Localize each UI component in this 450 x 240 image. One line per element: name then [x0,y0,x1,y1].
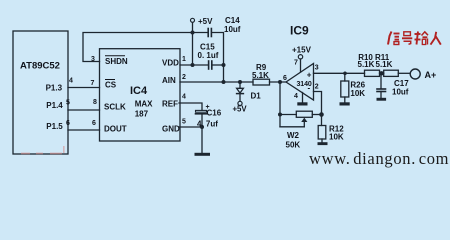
svg-text:10uf: 10uf [392,87,409,96]
svg-text:10K: 10K [329,133,344,142]
node at opamp input [279,82,281,127]
wire C17 stem [380,73,382,88]
watermark remnant marks (faint red) [21,146,65,154]
svg-text:2: 2 [182,74,186,81]
svg-text:8: 8 [93,99,97,106]
capacitor C14 plates [207,29,209,37]
wire C16 to GND wire [201,115,203,128]
ground bar R26 [340,102,350,105]
svg-text:AT89C52: AT89C52 [20,61,60,72]
junction D1 [238,80,242,84]
junction W2 left [278,113,282,117]
wire C14 to vertical [212,33,224,83]
svg-text:DOUT: DOUT [104,125,127,134]
svg-text:3: 3 [91,56,95,63]
terminal A+ circle [410,69,420,79]
junction C16 gnd [200,125,204,129]
capacitor C17 top plate [377,88,386,90]
glyph 入 [431,32,441,45]
svg-text:MAX: MAX [135,100,153,109]
glyph 信 [388,32,400,45]
wire P1.4 to SCLK [68,109,100,111]
svg-text:4: 4 [69,78,73,85]
svg-text:www.diangon.com: www.diangon.com [309,149,449,168]
wire R11 to A+ [398,72,410,74]
wire W2 right [312,114,321,116]
wire GND down [201,127,203,153]
diode D1 stem bottom [239,94,241,102]
svg-text:2: 2 [315,84,319,91]
diode D1 triangle [237,88,244,93]
resistor R26 box [341,81,349,97]
svg-text:5.1K: 5.1K [376,60,393,69]
wire +15V to pin7 [300,59,302,72]
wire SHDN to +5V rail [83,33,193,62]
red caption 信号输入 (signal input) drawn as strokes [388,32,441,45]
wire +5V rail to C14 [193,32,208,34]
wire R12 to ground [321,139,323,142]
wire R26 stem [344,73,346,81]
op-amp U IC9 triangle [286,64,314,101]
svg-text:C14: C14 [225,16,240,25]
svg-text:50K: 50K [286,141,301,150]
junction C15 right [222,63,226,67]
potentiometer W2 box [296,111,312,117]
svg-text:1: 1 [182,56,186,63]
svg-text:-: - [308,84,311,93]
svg-text:P1.4: P1.4 [46,101,63,110]
terminal +5V top stem [192,23,194,33]
wire AIN pin 2 [180,81,253,83]
wire pin2 to feedback [314,92,322,126]
junction R26 [343,72,347,76]
junction +5V rail [191,31,195,35]
svg-text:6: 6 [66,120,70,127]
wiper W2 arrow head [301,118,307,122]
svg-text:5: 5 [66,100,70,107]
MCU U? AT89C52 box [13,31,68,154]
svg-text:C16: C16 [207,109,222,118]
junction R10 R11 C17 [379,71,383,75]
svg-text:5.1K: 5.1K [358,60,375,69]
svg-text:3: 3 [315,64,319,71]
svg-text:SHDN: SHDN [105,57,128,66]
wire +5V down to VDD [192,33,194,66]
svg-text:4: 4 [182,94,186,101]
svg-text:+: + [307,71,312,80]
wire node to W2 left [280,114,296,116]
svg-text:4: 4 [294,93,298,100]
junction opamp input node [278,80,282,84]
capacitor C16 bottom plate [196,113,207,115]
capacitor C16 top plate [196,110,207,112]
ground bar C16 [195,153,211,156]
glyph 号 [402,32,412,45]
svg-text:10uf: 10uf [224,25,241,34]
resistor R10 box [365,70,380,76]
wire pin3 output to R10 [314,72,365,74]
svg-text:W2: W2 [287,131,300,140]
svg-text:+5V: +5V [233,105,248,114]
wire GND pin 5 [179,126,202,128]
terminal +15V circle [298,55,302,59]
svg-text:10K: 10K [350,89,365,98]
wire C17 to ground [380,92,382,98]
ground bar opamp pin4 [297,102,307,105]
svg-text:P1.3: P1.3 [46,84,63,93]
ground bar C17 [377,98,387,101]
wire C15 right [212,64,223,66]
junction W2 right [319,112,324,117]
wire wiper to node [280,126,304,128]
wire R10-R11 [380,72,384,74]
wire R9 to opamp [270,81,287,83]
svg-text:VDD: VDD [162,59,179,68]
svg-text:5: 5 [182,118,186,125]
resistor R9 box [253,79,270,85]
diode D1 cathode bar [237,93,244,95]
diode D1 stem top [239,82,241,88]
svg-text:7: 7 [91,80,95,87]
junction VDD [191,63,195,67]
svg-text:6: 6 [283,75,287,82]
svg-text:IC4: IC4 [130,85,148,97]
IC4 MAX187 box [100,49,181,141]
svg-text:REF: REF [162,100,178,109]
wire REF pin 4 to C16 [179,103,202,110]
svg-text:IC9: IC9 [290,24,309,38]
svg-text:6: 6 [92,120,96,127]
terminal +5V top circle [191,18,195,22]
svg-text:D1: D1 [251,92,262,101]
svg-text:4. 7uf: 4. 7uf [197,120,218,129]
svg-text:0. 1uf: 0. 1uf [198,51,219,60]
svg-text:AIN: AIN [162,76,176,85]
junction AIN vertical [222,80,226,84]
svg-text:GND: GND [162,125,180,134]
wiper W2 stem [303,122,305,127]
ground bar R12 [318,142,328,145]
svg-text:P1.5: P1.5 [46,122,63,131]
capacitor C15 plates [208,61,210,69]
svg-text:7: 7 [294,60,298,67]
resistor R12 box [318,126,326,140]
resistor R11 box [384,70,399,76]
wire P1.5 to DOUT [68,129,100,131]
wire P1.3 to CS [68,87,100,89]
svg-text:187: 187 [135,110,149,119]
wire VDD pin 1 [180,64,208,66]
svg-text:5.1K: 5.1K [252,71,269,80]
terminal +5V (D1) circle [238,101,242,105]
svg-text:SCLK: SCLK [104,103,126,112]
svg-text:+15V: +15V [292,46,312,55]
capacitor C17 bottom plate [377,91,386,93]
wire R26 to ground [344,97,346,102]
svg-text:+5V: +5V [198,17,213,26]
svg-text:CS: CS [105,81,117,90]
glyph 输 [415,32,429,45]
wire pin4 to ground [302,93,304,103]
svg-text:A+: A+ [425,70,437,80]
